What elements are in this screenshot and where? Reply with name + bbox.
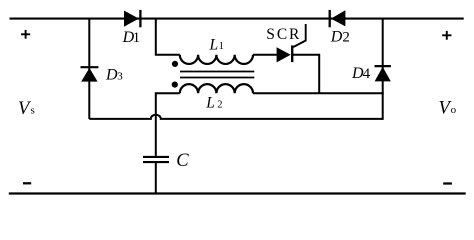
- inductor L1: [180, 55, 253, 64]
- core line upper: [180, 71, 254, 73]
- svg-text:D1: D1: [122, 29, 141, 46]
- svg-text:s: s: [31, 105, 35, 117]
- svg-text:D2: D2: [330, 29, 350, 46]
- wire bottom rail: [9, 192, 466, 194]
- diode D3 vertical wire: [88, 18, 90, 119]
- diode D1: [124, 10, 140, 27]
- diode D2: [330, 10, 346, 27]
- wire top rail: [10, 18, 464, 20]
- core line lower: [180, 77, 254, 79]
- capacitor C: [143, 157, 169, 162]
- svg-text:3: 3: [117, 70, 123, 82]
- svg-text:SCR: SCR: [266, 26, 301, 43]
- diode D4 vertical wire: [382, 18, 384, 120]
- svg-text:D4: D4: [351, 65, 371, 82]
- wire vertical from top rail to L1: [156, 18, 180, 55]
- polarity dot L1: [172, 61, 178, 67]
- label plus left: [21, 30, 30, 39]
- svg-text:D: D: [105, 66, 118, 83]
- label minus left: [23, 182, 31, 184]
- wire D3 bottom to D4 bottom with hop over capacitor branch: [89, 115, 382, 119]
- label plus right: [442, 31, 451, 40]
- diode D3: [81, 67, 99, 81]
- svg-text:C: C: [176, 151, 189, 171]
- svg-text:L: L: [209, 37, 219, 54]
- inductor L2: [180, 84, 253, 93]
- SCR gate lead: [293, 24, 305, 47]
- SCR thyristor: [277, 45, 293, 62]
- svg-text:1: 1: [219, 41, 224, 52]
- label minus right: [443, 182, 452, 184]
- wire L1 to SCR anode: [253, 54, 277, 56]
- wire capacitor to bottom rail: [155, 162, 157, 193]
- svg-text:L: L: [205, 95, 215, 112]
- wire L2 left down to capacitor: [156, 93, 180, 156]
- wire L2 right to D4 branch: [253, 92, 384, 94]
- svg-text:2: 2: [217, 100, 222, 111]
- diode D4: [375, 66, 391, 81]
- svg-text:o: o: [451, 104, 457, 116]
- polarity dot L2: [172, 82, 178, 88]
- wire SCR cathode to drop: [292, 55, 319, 94]
